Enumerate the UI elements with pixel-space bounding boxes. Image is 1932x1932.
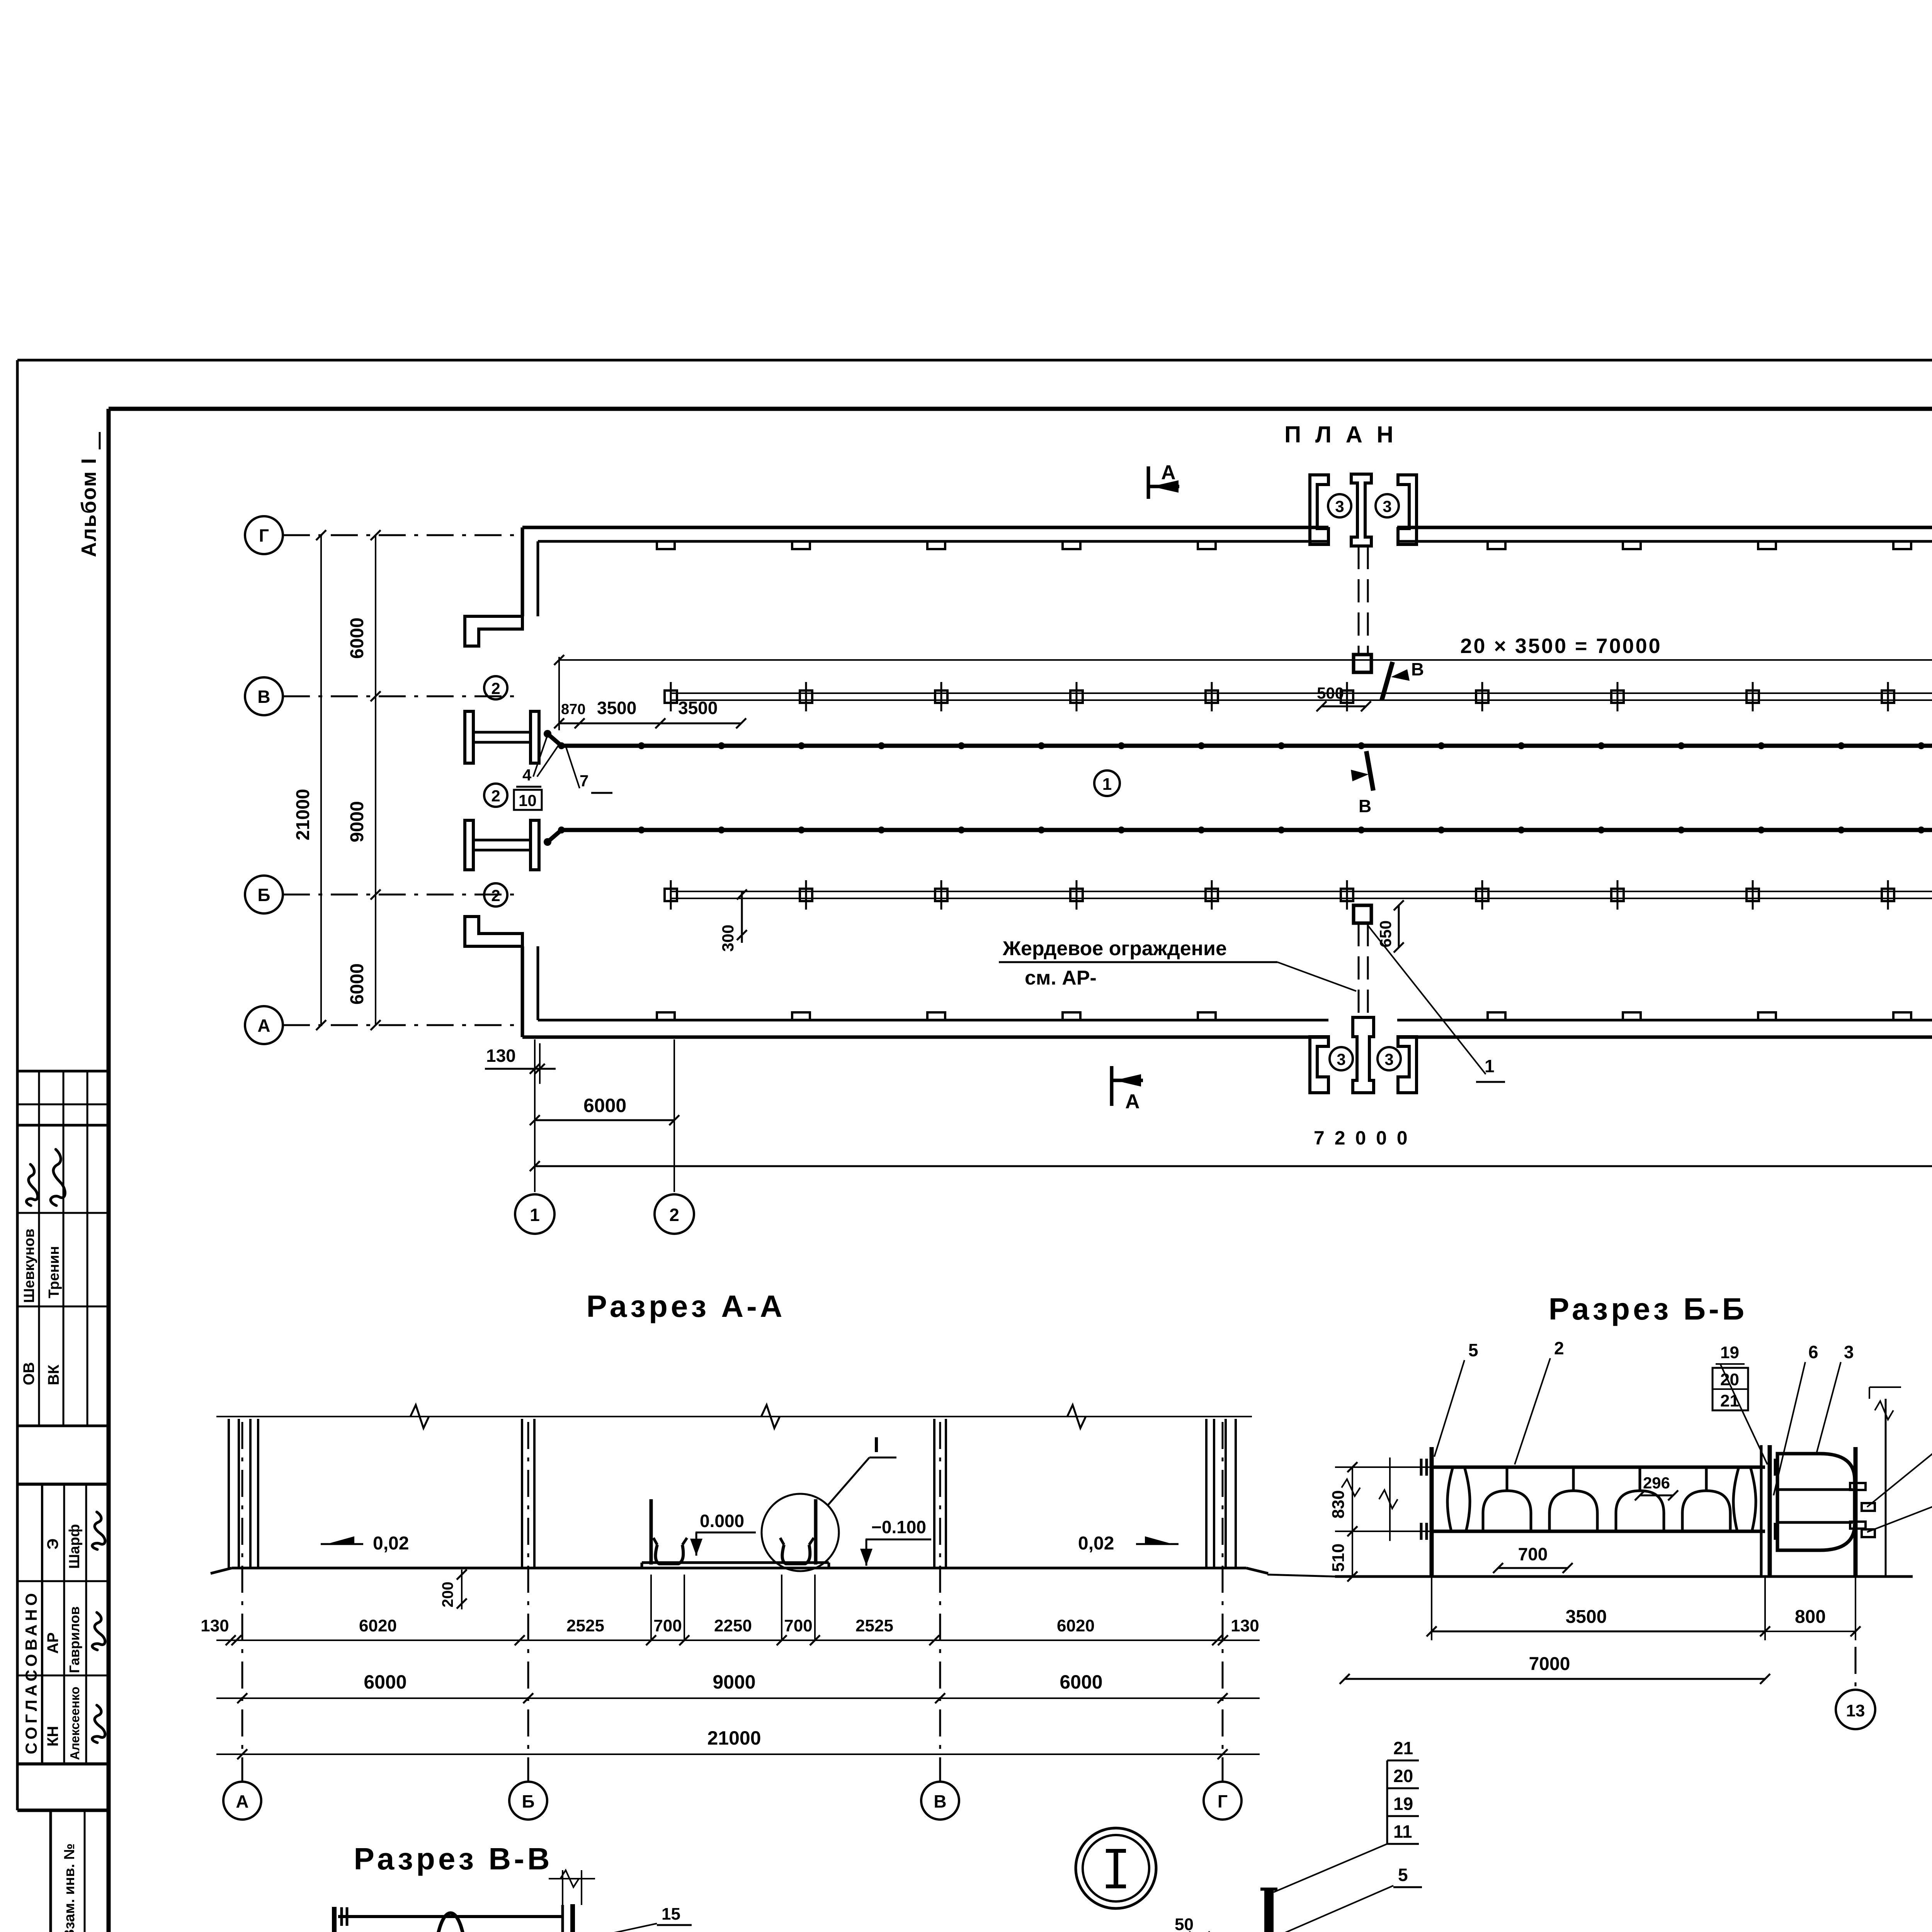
node fence post: [1264, 1889, 1274, 1932]
svg-text:800: 800: [1795, 1607, 1826, 1627]
room label 3 (top tambour left): [1328, 494, 1351, 517]
svg-text:19: 19: [1393, 1794, 1413, 1814]
svg-text:А: А: [257, 1015, 270, 1036]
svg-text:В: В: [1411, 659, 1424, 679]
axis 2: [673, 1039, 675, 1192]
bottom centre tambour left bracket: [1310, 1037, 1328, 1093]
axis line Б: [283, 894, 522, 896]
axis bubble Г: [1222, 1422, 1224, 1781]
svg-text:Г: Г: [259, 526, 269, 546]
svg-text:6000: 6000: [364, 1671, 406, 1693]
svg-text:13: 13: [1846, 1701, 1865, 1720]
svg-text:50: 50: [1175, 1915, 1194, 1932]
svg-text:Б: Б: [257, 885, 270, 905]
svg-text:200: 200: [439, 1582, 456, 1607]
svg-text:9000: 9000: [347, 801, 367, 842]
svg-text:15: 15: [662, 1905, 680, 1923]
svg-text:В: В: [934, 1791, 946, 1811]
svg-text:6: 6: [1808, 1342, 1818, 1362]
plan left wall: [521, 527, 524, 616]
svg-text:2250: 2250: [714, 1616, 752, 1635]
room labels 2 (tambour) left column: [484, 676, 507, 699]
wall on axis Б: [521, 1419, 523, 1568]
sidebar agreement block СОГЛАСОВАНО: [17, 1483, 109, 1486]
dim 72000: [535, 1165, 1932, 1167]
feed fence line on axis Б: [671, 891, 1932, 892]
dim 300 at feed fence: [741, 891, 743, 943]
slope mark 0,02 left: [321, 1543, 363, 1545]
feed fence post markers: [665, 690, 677, 703]
svg-text:21000: 21000: [707, 1727, 761, 1749]
leader from Жердевое text to gate: [1277, 962, 1356, 991]
svg-text:4: 4: [522, 766, 532, 784]
svg-text:11: 11: [1393, 1821, 1412, 1842]
feed trough right with post: [814, 1499, 818, 1565]
left middle tambour H-column lower: [465, 820, 473, 870]
svg-text:ОВ: ОВ: [20, 1362, 37, 1385]
svg-text:1: 1: [1485, 1056, 1495, 1076]
svg-text:5: 5: [1468, 1340, 1478, 1360]
svg-text:СОГЛАСОВАНО: СОГЛАСОВАНО: [22, 1590, 40, 1754]
sheet inner drawing frame: [109, 407, 1932, 411]
svg-text:650: 650: [1376, 920, 1395, 947]
pole fence lower: [561, 828, 1932, 832]
svg-text:Тренин: Тренин: [46, 1246, 62, 1298]
section A-A dimension row 2 (6000/9000/6000): [216, 1697, 1260, 1699]
sheet outer border frame: [17, 359, 1932, 362]
svg-text:см. АР-: см. АР-: [1025, 967, 1097, 989]
svg-text:500: 500: [1317, 684, 1344, 702]
svg-text:Альбом I: Альбом I: [77, 457, 100, 557]
room label 3 (bottom tambour left): [1330, 1047, 1353, 1070]
svg-text:3: 3: [1335, 497, 1344, 515]
svg-text:Жердевое ограждение: Жердевое ограждение: [1002, 937, 1227, 960]
gate track dashed line top: [1358, 546, 1360, 655]
dim 200 under floor: [461, 1570, 463, 1609]
svg-text:130: 130: [486, 1046, 516, 1066]
pole fence dots: [558, 742, 565, 749]
svg-text:Взам. инв. №: Взам. инв. №: [61, 1844, 78, 1932]
svg-text:6020: 6020: [1057, 1616, 1095, 1635]
svg-text:2: 2: [669, 1205, 679, 1225]
axis line А: [283, 1024, 522, 1026]
section mark B-B (В) lower: [1366, 751, 1373, 791]
svg-text:3: 3: [1844, 1342, 1854, 1362]
wall on axis В: [933, 1419, 935, 1568]
left wall door jamb lower: [465, 917, 522, 946]
gate box on axis Б: [1354, 905, 1371, 923]
top centre tambour right bracket: [1398, 475, 1417, 544]
svg-text:Г: Г: [1218, 1791, 1228, 1811]
svg-text:130: 130: [1231, 1616, 1259, 1635]
svg-text:АР: АР: [44, 1632, 61, 1654]
axis bubble Б: [527, 1422, 529, 1781]
feed trough left with post: [650, 1499, 653, 1565]
svg-text:20 × 3500 = 70000: 20 × 3500 = 70000: [1460, 634, 1662, 658]
svg-text:Разрез Б-Б: Разрез Б-Б: [1549, 1292, 1748, 1326]
rail stubs to dimension line: [1345, 1466, 1432, 1468]
svg-text:Алексеенко: Алексеенко: [68, 1687, 82, 1760]
svg-text:300: 300: [719, 925, 737, 952]
svg-text:3500: 3500: [597, 698, 636, 718]
svg-text:3: 3: [1383, 497, 1391, 515]
Б-Б dim 7000: [1345, 1678, 1765, 1680]
feed fence line on axis В: [671, 692, 1932, 694]
detail circle I around trough: [762, 1494, 839, 1571]
Б-Б axis bubble 13: [1855, 1647, 1857, 1689]
svg-text:Гаврилов: Гаврилов: [66, 1606, 82, 1673]
svg-text:130: 130: [201, 1616, 229, 1635]
svg-text:Разрез В-В: Разрез В-В: [354, 1842, 553, 1876]
svg-text:2: 2: [491, 787, 500, 805]
axis line Г: [283, 534, 522, 536]
fence end taper right: [1733, 1467, 1739, 1531]
fence left post: [1430, 1447, 1434, 1577]
fence rails: [1432, 1466, 1765, 1469]
axis line В: [283, 696, 522, 697]
svg-text:21000: 21000: [293, 789, 313, 840]
svg-text:10: 10: [519, 791, 537, 810]
plan bottom wall inner face: [538, 1019, 1328, 1022]
svg-text:20: 20: [1720, 1370, 1739, 1389]
stall room label 1: [1094, 770, 1120, 796]
svg-text:Шевкунов: Шевкунов: [21, 1229, 37, 1303]
dim 500 at gate: [1321, 706, 1366, 707]
svg-text:700: 700: [1518, 1544, 1548, 1564]
left middle tambour H-column upper: [465, 711, 473, 763]
break mark on rail stubs: [1389, 1458, 1391, 1541]
svg-text:510: 510: [1329, 1544, 1348, 1572]
В-В ring tie: [435, 1913, 466, 1932]
wall reference line right: [1885, 1399, 1887, 1577]
svg-text:870: 870: [561, 701, 585, 718]
gate track dashed line bottom: [1358, 923, 1360, 1017]
svg-text:296: 296: [1643, 1474, 1670, 1492]
signature Тренин: [51, 1150, 65, 1206]
dim line 6000/9000/6000 (left): [375, 535, 376, 1025]
В-В top break reference: [562, 1870, 563, 1905]
sidebar approval table (OB/BK block): [17, 1070, 109, 1073]
section A-A wall cut line with breaks: [216, 1416, 1252, 1417]
axis bubble В: [939, 1422, 941, 1781]
left wall door jamb (axis Г-В tambour): [465, 616, 522, 646]
dim 650 at lower gate: [1398, 905, 1400, 947]
top centre tambour left bracket: [1310, 475, 1328, 544]
dim line 21000 (left): [320, 535, 322, 1025]
svg-text:20: 20: [1393, 1766, 1413, 1786]
fence right post pair: [1760, 1445, 1763, 1577]
svg-text:I: I: [873, 1432, 879, 1457]
section mark A-A bottom: [1110, 1066, 1114, 1106]
dim 20x3500=70000: [559, 659, 1932, 661]
svg-text:В: В: [257, 687, 270, 707]
Б-Б dims 3500 / 800: [1431, 1577, 1432, 1640]
В-В left post: [332, 1907, 337, 1932]
node I big badge: [1076, 1828, 1156, 1908]
svg-text:9000: 9000: [713, 1671, 755, 1693]
svg-text:3: 3: [1337, 1050, 1345, 1068]
pilaster notches on walls: [657, 541, 675, 549]
В-В rails: [338, 1915, 562, 1918]
svg-text:ВК: ВК: [45, 1364, 62, 1385]
svg-text:А: А: [236, 1791, 248, 1811]
svg-text:1: 1: [530, 1205, 540, 1225]
pole fence upper (with posts as dots): [561, 744, 1932, 748]
section A-A dimension row 3 (21000): [216, 1753, 1260, 1755]
svg-text:21: 21: [1393, 1738, 1413, 1758]
section mark B-B (В) upper: [1382, 662, 1393, 700]
svg-text:13: 13: [662, 1929, 680, 1932]
dim row 870/3500/3500 left: [558, 657, 560, 730]
plan bottom wall outer face: [522, 1036, 1328, 1039]
svg-text:П Л А Н: П Л А Н: [1284, 422, 1397, 447]
bottom centre tambour I-column: [1353, 1017, 1374, 1093]
svg-text:КН: КН: [44, 1726, 61, 1747]
svg-text:0,02: 0,02: [373, 1533, 409, 1554]
svg-text:3500: 3500: [678, 698, 718, 718]
dim 700 between stanchions: [1498, 1567, 1568, 1569]
svg-text:2: 2: [491, 679, 500, 697]
svg-text:830: 830: [1329, 1490, 1348, 1519]
stall platform at 0.000: [642, 1561, 829, 1564]
svg-text:700: 700: [784, 1616, 812, 1635]
axis 1: [534, 1039, 536, 1192]
svg-text:Шарф: Шарф: [66, 1524, 83, 1569]
svg-text:6000: 6000: [347, 617, 367, 659]
svg-text:6000: 6000: [347, 963, 367, 1005]
tambour gate (rounded): [1777, 1454, 1855, 1550]
svg-text:−0.100: −0.100: [871, 1517, 926, 1537]
svg-text:А: А: [1161, 461, 1176, 484]
room label 3 (top tambour right): [1376, 494, 1399, 517]
svg-text:7000: 7000: [1529, 1654, 1570, 1674]
svg-text:А: А: [1125, 1090, 1140, 1113]
section A-A ground line: [232, 1567, 1246, 1570]
section A-A dimension chain row 1: [216, 1639, 1260, 1641]
section Б-Б ground line: [1335, 1575, 1913, 1578]
svg-text:3500: 3500: [1566, 1607, 1607, 1627]
dim 296 between stanchions: [1640, 1495, 1673, 1497]
bottom centre tambour right bracket: [1398, 1037, 1417, 1093]
svg-text:Б: Б: [522, 1791, 534, 1811]
svg-text:3: 3: [1384, 1050, 1393, 1068]
slope mark 0,02 right: [1136, 1543, 1179, 1545]
leader and label 1 for gate: [1368, 925, 1486, 1074]
В-В right post pair: [561, 1905, 564, 1932]
svg-text:700: 700: [653, 1616, 682, 1635]
svg-text:2525: 2525: [855, 1616, 893, 1635]
plan top wall outer face: [522, 526, 1328, 529]
svg-text:1: 1: [1102, 775, 1112, 794]
room label 3 (bottom tambour right): [1378, 1047, 1401, 1070]
svg-text:19: 19: [1720, 1343, 1739, 1362]
svg-text:6000: 6000: [1060, 1671, 1102, 1693]
signature Шевкунова: [26, 1164, 37, 1206]
dim 130 at axis 1: [539, 1043, 541, 1084]
svg-text:0,02: 0,02: [1078, 1533, 1114, 1554]
svg-text:Разрез А-А: Разрез А-А: [586, 1289, 785, 1323]
fence end taper left: [1447, 1467, 1453, 1531]
svg-text:2525: 2525: [566, 1616, 604, 1635]
svg-text:6020: 6020: [359, 1616, 397, 1635]
svg-text:7: 7: [580, 772, 588, 790]
svg-text:0.000: 0.000: [700, 1511, 744, 1531]
svg-text:Э: Э: [44, 1539, 61, 1549]
gate hinge post: [1854, 1447, 1858, 1577]
svg-text:2: 2: [1554, 1338, 1564, 1358]
svg-text:В: В: [1359, 796, 1371, 816]
fence stanchion dividers: [1506, 1467, 1509, 1491]
section mark A-A top: [1147, 466, 1150, 499]
svg-text:6000: 6000: [583, 1095, 626, 1116]
sidebar inventory strip: [51, 1809, 109, 1812]
gate box on axis В: [1354, 655, 1371, 672]
wall on axis Г: [1205, 1419, 1207, 1568]
detail flag I: [828, 1458, 869, 1505]
svg-text:21: 21: [1720, 1391, 1739, 1410]
plan top wall inner face: [538, 540, 1328, 543]
dim 6000 axes 1-2: [535, 1119, 674, 1121]
wall on axis А: [228, 1419, 230, 1568]
vertical dims 830 / 510: [1352, 1467, 1353, 1577]
svg-text:7 2 0 0 0: 7 2 0 0 0: [1314, 1127, 1410, 1149]
svg-text:5: 5: [1398, 1865, 1408, 1885]
hinge fittings: [1850, 1483, 1866, 1490]
axis bubble А: [241, 1422, 243, 1781]
top centre tambour I-column: [1351, 474, 1371, 546]
